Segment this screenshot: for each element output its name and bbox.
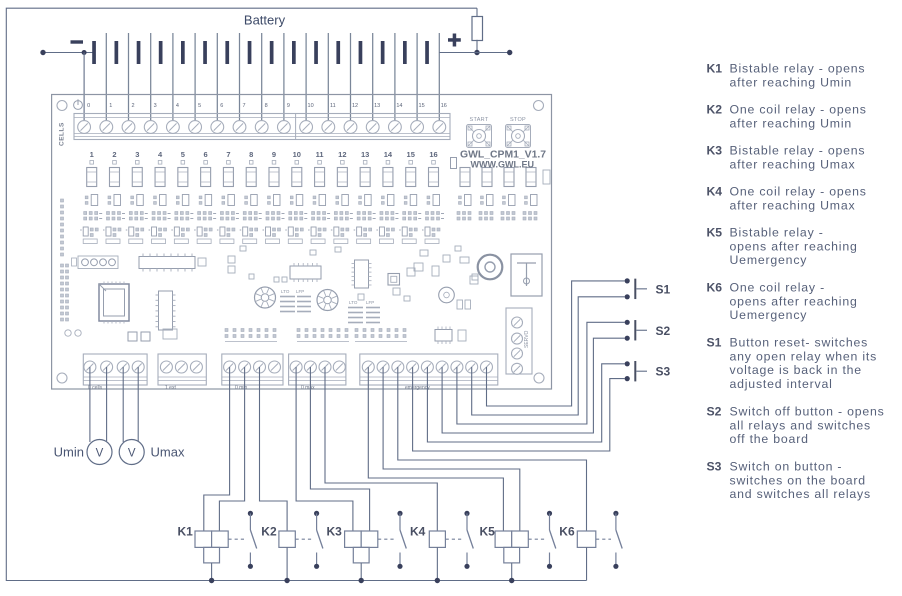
- svg-text:CELLS: CELLS: [59, 122, 66, 146]
- balancing resistor footprints R1-R16: [87, 168, 439, 187]
- svg-text:One coil relay -: One coil relay -: [730, 281, 826, 295]
- relay K6 contact: [613, 511, 622, 569]
- relay K5 contact: [547, 511, 556, 569]
- label chemistry table for P1: [280, 289, 311, 312]
- svg-text:K4: K4: [707, 185, 723, 199]
- microcontroller U1 QFP: [99, 282, 129, 324]
- svg-text:after reaching Umin: after reaching Umin: [730, 75, 853, 89]
- svg-text:16: 16: [441, 103, 447, 109]
- relay K2 coil: [279, 531, 295, 583]
- svg-text:14: 14: [396, 103, 402, 109]
- svg-text:LTO: LTO: [349, 300, 358, 305]
- svg-text:Switch off button - opens: Switch off button - opens: [730, 405, 885, 419]
- node minus output terminal: [40, 50, 45, 55]
- connector programming header J2: [72, 256, 119, 269]
- svg-text:emergency: emergency: [405, 385, 430, 391]
- voltmeter V1 Umin: [87, 440, 112, 465]
- svg-text:Switch on button -: Switch on button -: [730, 460, 843, 474]
- svg-text:13: 13: [374, 103, 380, 109]
- wire battery negative bus (left and bottom loop): [6, 8, 586, 580]
- svg-text:15: 15: [407, 150, 415, 159]
- mechanical link K6: [596, 538, 611, 540]
- svg-text:0: 0: [87, 103, 90, 109]
- wire emergency4 to switch S3 lower: [413, 367, 625, 451]
- connector block emergency: [360, 354, 498, 391]
- connector block min: [222, 354, 283, 391]
- svg-text:13: 13: [361, 150, 369, 159]
- svg-text:One coil relay - opens: One coil relay - opens: [730, 103, 867, 117]
- wire max1 to relay K3 coil A: [296, 367, 353, 531]
- fuse F1: [472, 17, 483, 41]
- legend entry K5: [707, 226, 858, 268]
- wire emergency1 to relay K5 coil A: [368, 367, 503, 531]
- svg-text:10: 10: [293, 150, 301, 159]
- node battery plus junction: [474, 50, 479, 55]
- legend entry K6: [707, 281, 858, 323]
- trimmer potentiometer P2 (Umax adjust): [317, 290, 338, 311]
- wire emergency5 to switch S3 upper: [427, 364, 624, 442]
- svg-text:7: 7: [226, 150, 230, 159]
- wire min1 to relay K1 coil A: [204, 367, 230, 531]
- wire emergency9 to switch S1 upper: [487, 281, 625, 406]
- svg-text:1: 1: [90, 150, 94, 159]
- wire battery plus output: [477, 52, 510, 54]
- wire max3 to relay K4 coil: [325, 367, 437, 531]
- small parts near C10: [407, 250, 478, 309]
- svg-text:after reaching Umax: after reaching Umax: [730, 198, 856, 212]
- mechanical link K3: [378, 538, 395, 540]
- connector block ext: [158, 354, 206, 391]
- svg-text:voltage is back in the: voltage is back in the: [730, 363, 862, 377]
- relay K6 coil: [577, 531, 596, 581]
- wire battery cell taps to CELLS terminal block: [83, 53, 85, 122]
- svg-text:opens after reaching: opens after reaching: [730, 239, 858, 253]
- wire cells terminal 4 to voltmeter Umax: [137, 367, 139, 441]
- connector block servo (vertical): [506, 308, 532, 374]
- svg-text:S3: S3: [656, 365, 671, 379]
- svg-text:switches on the board: switches on the board: [730, 473, 866, 487]
- svg-text:3: 3: [154, 103, 157, 109]
- wire emergency7 to switch S2 upper: [457, 322, 625, 424]
- svg-text:STOP: STOP: [510, 117, 526, 123]
- svg-text:14: 14: [384, 150, 393, 159]
- mechanical link K5: [529, 538, 545, 540]
- svg-text:16: 16: [429, 150, 437, 159]
- misc left-bottom parts: [65, 329, 466, 341]
- IC U2 DIP16: [139, 254, 195, 272]
- svg-text:all relays and switches: all relays and switches: [730, 418, 871, 432]
- relay K2 contact: [314, 511, 323, 569]
- wire emergency3 to relay K6 coil: [398, 367, 587, 531]
- auxiliary footprints right group: [460, 168, 550, 187]
- wire cells terminal 3 to voltmeter Umax: [122, 367, 124, 442]
- wire cells terminal 2 to voltmeter Umin: [106, 367, 108, 441]
- legend entry K2: [707, 103, 867, 131]
- PCB board U1 (GWL_CPM1 BMS board): [52, 95, 552, 390]
- svg-text:K4: K4: [410, 525, 426, 539]
- svg-text:Bistable relay - opens: Bistable relay - opens: [730, 144, 866, 158]
- wire plus to fuse: [439, 52, 477, 54]
- svg-text:K3: K3: [327, 525, 343, 539]
- mechanical link K1: [228, 538, 245, 540]
- svg-text:1: 1: [109, 103, 112, 109]
- svg-text:LFP: LFP: [366, 300, 374, 305]
- relay K3 contact: [397, 511, 406, 569]
- svg-text:after reaching Umin: after reaching Umin: [730, 116, 853, 130]
- svg-text:after reaching Umax: after reaching Umax: [730, 157, 856, 171]
- wire fuse top lead: [476, 8, 478, 16]
- relay K1 contact: [248, 511, 257, 569]
- wire fuse bottom lead: [476, 40, 478, 53]
- svg-text:6: 6: [204, 150, 208, 159]
- svg-text:9: 9: [272, 150, 276, 159]
- svg-text:7: 7: [242, 103, 245, 109]
- svg-text:8: 8: [249, 150, 253, 159]
- svg-text:Bistable relay - opens: Bistable relay - opens: [730, 62, 866, 76]
- resistor arrays bottom rows: [225, 329, 407, 342]
- svg-text:WWW.GWL.EU: WWW.GWL.EU: [471, 160, 534, 170]
- button STOP footprint: [506, 117, 531, 148]
- svg-text:any open relay when its: any open relay when its: [730, 349, 878, 363]
- relay K3 coils (bistable): [345, 531, 378, 583]
- label battery plus sign: [448, 38, 461, 42]
- svg-text:2: 2: [112, 150, 116, 159]
- wire battery minus lead: [43, 52, 95, 54]
- svg-text:opens after reaching: opens after reaching: [730, 294, 858, 308]
- relay K5 coils (bistable): [495, 531, 528, 583]
- mechanical link K2: [296, 538, 312, 540]
- svg-text:One coil relay - opens: One coil relay - opens: [730, 185, 867, 199]
- relay driver module T1: [511, 254, 542, 296]
- SMD regulator U6: [388, 274, 400, 286]
- svg-text:1 ext: 1 ext: [165, 385, 176, 391]
- IC U4 DIP14 horizontal: [290, 263, 321, 282]
- legend entry K1: [707, 62, 866, 90]
- legend entry K3: [707, 144, 866, 172]
- pin numbers 0-16 of CELLS block: [87, 103, 447, 109]
- mechanical link K4: [446, 538, 463, 540]
- pin header columns left edge: [61, 199, 69, 321]
- svg-text:S3: S3: [707, 460, 722, 474]
- svg-text:12: 12: [338, 150, 346, 159]
- svg-text:adjusted interval: adjusted interval: [730, 377, 833, 391]
- svg-text:K1: K1: [707, 62, 723, 76]
- wire emergency2 to relay K5 coil B: [383, 367, 520, 531]
- svg-text:3: 3: [135, 150, 139, 159]
- svg-text:5: 5: [198, 103, 201, 109]
- svg-text:5: 5: [181, 150, 185, 159]
- node plus output terminal: [507, 50, 512, 55]
- svg-text:11: 11: [330, 103, 336, 109]
- svg-text:K3: K3: [707, 144, 723, 158]
- svg-text:SERVO: SERVO: [524, 330, 530, 348]
- svg-text:6: 6: [220, 103, 223, 109]
- svg-text:Umin: Umin: [54, 445, 84, 460]
- svg-text:S2: S2: [707, 405, 722, 419]
- legend entry S1: [707, 336, 878, 391]
- wire emergency8 to switch S1 lower: [472, 297, 625, 415]
- svg-text:K6: K6: [707, 281, 723, 295]
- label chemistry table for P2: [348, 300, 380, 323]
- svg-text:S1: S1: [656, 282, 671, 296]
- svg-text:K2: K2: [707, 103, 723, 117]
- IC U3 DIP14 vertical: [156, 291, 176, 330]
- connector block cells output: [83, 354, 147, 391]
- IC U5 DIP16 vertical: [352, 260, 372, 288]
- svg-text:Button reset- switches: Button reset- switches: [730, 336, 869, 350]
- svg-text:LFP: LFP: [296, 289, 304, 294]
- svg-text:V: V: [128, 448, 136, 460]
- svg-text:15: 15: [419, 103, 425, 109]
- svg-text:0 min: 0 min: [235, 385, 247, 391]
- misc mid-board small parts: [198, 246, 478, 301]
- svg-text:Battery: Battery: [244, 13, 286, 28]
- svg-text:START: START: [469, 117, 488, 123]
- wire min2 to relay K1 coil B: [219, 367, 244, 531]
- svg-text:S1: S1: [707, 336, 722, 350]
- wire emergency6 to switch S2 lower: [442, 338, 624, 433]
- LED indicator pads row: [90, 161, 435, 165]
- svg-text:K5: K5: [480, 525, 496, 539]
- svg-text:9: 9: [287, 103, 290, 109]
- svg-text:K2: K2: [261, 525, 277, 539]
- svg-text:V: V: [96, 448, 104, 460]
- wire min3 to relay K2 coil: [260, 367, 288, 531]
- pushbutton S1: [625, 278, 647, 299]
- connector block max: [289, 354, 346, 391]
- relay K1 coils (bistable): [195, 531, 228, 583]
- button START footprint: [467, 117, 492, 148]
- voltmeter V2 Umax: [119, 440, 144, 465]
- svg-text:2: 2: [131, 103, 134, 109]
- IC U7 DIP8: [435, 327, 452, 345]
- legend entry S3: [707, 460, 871, 502]
- relay K4 coil: [429, 531, 445, 583]
- svg-text:10: 10: [308, 103, 314, 109]
- svg-text:Uemergency: Uemergency: [730, 308, 808, 322]
- svg-text:Uemergency: Uemergency: [730, 253, 808, 267]
- relay K4 contact: [464, 511, 473, 569]
- svg-text:11: 11: [316, 150, 324, 159]
- svg-text:4: 4: [176, 103, 179, 109]
- svg-text:K1: K1: [178, 525, 194, 539]
- svg-text:K5: K5: [707, 226, 723, 240]
- trimmer potentiometer P1 (Umin adjust): [255, 287, 276, 308]
- battery BT1 (16 cells): [92, 33, 439, 121]
- pushbutton S2: [625, 320, 647, 341]
- node cell0 junction: [82, 50, 87, 55]
- svg-text:12: 12: [352, 103, 358, 109]
- svg-text:0 max: 0 max: [301, 385, 315, 391]
- wire cells terminal 1 to voltmeter Umin: [89, 367, 91, 442]
- label battery minus sign: [71, 40, 84, 43]
- svg-text:and switches all relays: and switches all relays: [730, 487, 871, 501]
- svg-text:off the board: off the board: [730, 432, 809, 446]
- legend entry K4: [707, 185, 867, 213]
- capacitor C10: [439, 287, 455, 303]
- svg-text:S2: S2: [656, 324, 671, 338]
- passive component pad field rows: [80, 195, 537, 244]
- inductor L1: [478, 255, 503, 280]
- svg-text:Bistable relay -: Bistable relay -: [730, 226, 824, 240]
- svg-text:Umax: Umax: [151, 445, 185, 460]
- legend entry S2: [707, 405, 885, 447]
- pushbutton S3: [625, 361, 647, 381]
- svg-text:K6: K6: [559, 525, 575, 539]
- labels cell channel numbers 1-16: [90, 150, 438, 159]
- svg-text:LTO: LTO: [281, 289, 290, 294]
- connector CELLS terminal block (17 screws): [74, 114, 450, 140]
- wire max2 to relay K3 coil B: [310, 367, 369, 531]
- svg-text:8: 8: [265, 103, 268, 109]
